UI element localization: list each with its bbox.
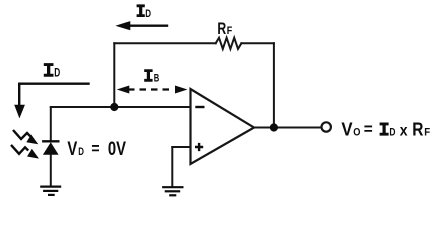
label ID left text [44,63,61,80]
svg-text:F: F [424,127,430,139]
svg-text:=: = [91,139,99,158]
svg-text:D: D [78,146,84,158]
svg-text:0V: 0V [108,139,126,160]
svg-text:V: V [341,119,353,140]
node junction dot at inverting input wire [110,103,118,111]
wire top feedback horizontal right segment [241,42,274,44]
svg-text:R: R [412,119,423,140]
ground GND1 under photodiode [40,187,61,195]
svg-text:D: D [145,8,151,20]
op-amp inverting pin minus sign [195,106,204,108]
wire non-inverting input horizontal [172,146,190,148]
label VO = ID x RF output equation [341,119,430,140]
wire non-inverting input vertical to ground [171,147,173,186]
wire main input horizontal to inverting input [51,106,191,108]
label ID top text [137,4,152,20]
wire photodiode branch upper vertical [50,107,52,141]
svg-text:V: V [67,139,77,160]
svg-text:B: B [154,73,160,85]
node junction dot at output feedback [270,123,278,131]
wire output from op-amp to terminal [254,127,321,129]
svg-text:R: R [217,19,226,38]
ground GND2 under op-amp non-inverting input [162,187,183,195]
photodiode triangle [43,142,59,155]
photodiode incident light arrow upper [13,130,38,144]
current arrow ID top (pointing left) [115,21,168,30]
output terminal open circle [322,122,331,131]
svg-text:x: x [400,123,408,140]
current arrow ID left (L-shaped pointing down) [14,84,90,119]
wire photodiode branch lower vertical [50,155,52,186]
current arrow IB (dashed, double-headed) [117,86,188,94]
photodiode incident light arrow lower [11,145,39,159]
wire left feedback vertical [113,43,115,107]
label RF resistor value [217,19,232,38]
photodiode D1 [42,141,59,155]
label VD = 0V photodiode voltage [67,139,126,160]
svg-text:F: F [227,25,233,37]
resistor RF [216,38,242,49]
wire right feedback vertical [273,43,275,127]
svg-text:=: = [364,120,373,138]
wire top feedback horizontal left segment [114,42,215,44]
svg-text:D: D [54,68,60,80]
op-amp U1 [191,89,255,164]
svg-text:O: O [353,127,361,139]
svg-text:D: D [389,127,395,139]
photodiode cathode bar [42,140,59,142]
op-amp non-inverting pin plus sign [195,143,203,151]
label IB text [144,69,159,85]
